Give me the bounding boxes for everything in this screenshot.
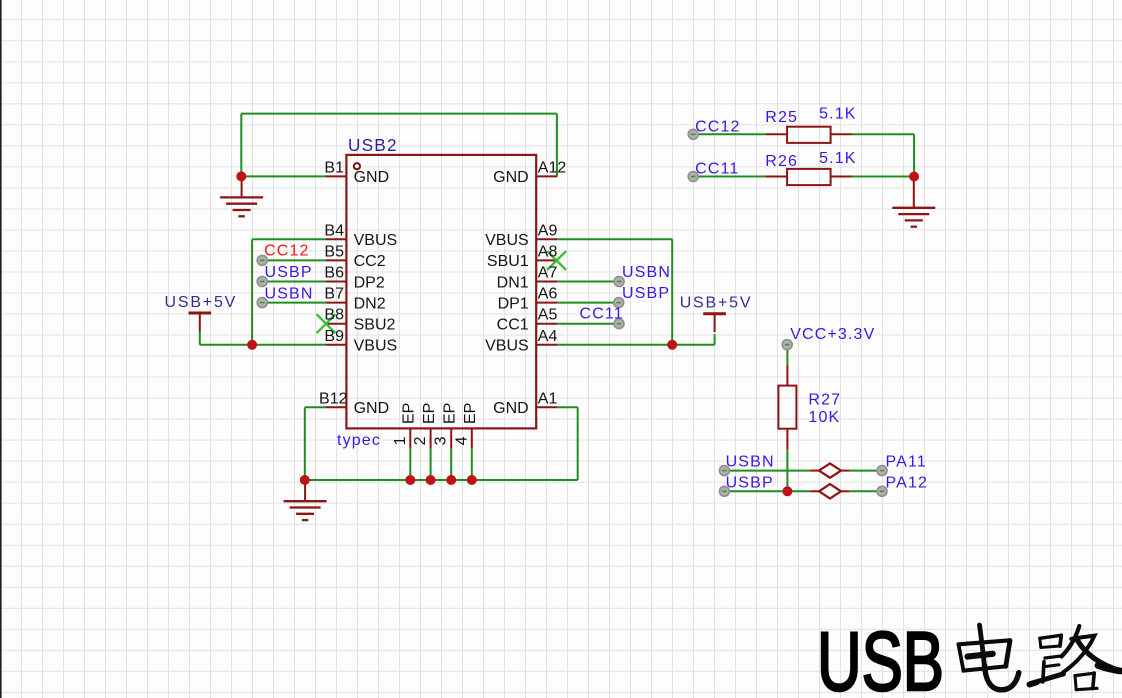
svg-text:10K: 10K (808, 409, 840, 426)
svg-text:PA11: PA11 (886, 453, 927, 470)
svg-text:A8: A8 (538, 243, 558, 260)
svg-text:USB+5V: USB+5V (165, 294, 238, 311)
svg-text:A1: A1 (538, 390, 558, 407)
svg-text:GND: GND (354, 169, 390, 186)
svg-text:SBU1: SBU1 (487, 253, 529, 270)
svg-text:VBUS: VBUS (354, 232, 398, 249)
svg-text:USBN: USBN (726, 454, 775, 471)
svg-text:USB2: USB2 (348, 135, 398, 155)
svg-text:GND: GND (493, 400, 529, 417)
svg-text:USBP: USBP (265, 264, 313, 281)
svg-text:USB+5V: USB+5V (680, 294, 753, 311)
svg-text:EP: EP (401, 403, 418, 424)
svg-text:CC11: CC11 (695, 160, 739, 177)
svg-text:VBUS: VBUS (354, 338, 398, 355)
svg-text:A12: A12 (538, 159, 567, 176)
svg-text:A9: A9 (538, 222, 558, 239)
svg-text:4: 4 (453, 436, 470, 445)
svg-text:DN1: DN1 (497, 274, 529, 291)
svg-text:USBN: USBN (265, 286, 314, 303)
svg-text:USBN: USBN (622, 264, 671, 281)
svg-text:2: 2 (412, 436, 429, 445)
svg-text:5.1K: 5.1K (819, 106, 857, 123)
svg-text:CC11: CC11 (580, 306, 624, 323)
svg-text:CC2: CC2 (354, 253, 386, 270)
svg-text:A6: A6 (538, 286, 558, 303)
svg-text:CC12: CC12 (264, 243, 310, 260)
svg-text:typec: typec (337, 432, 381, 449)
svg-text:1: 1 (392, 436, 409, 445)
svg-text:CC1: CC1 (497, 317, 529, 334)
svg-text:A7: A7 (538, 265, 558, 282)
svg-text:EP: EP (462, 403, 479, 424)
svg-text:CC12: CC12 (695, 118, 741, 135)
svg-text:B8: B8 (324, 307, 344, 324)
svg-text:DN2: DN2 (354, 295, 386, 312)
svg-text:PA12: PA12 (886, 474, 929, 491)
svg-text:SBU2: SBU2 (354, 317, 396, 334)
svg-text:GND: GND (493, 169, 529, 186)
svg-text:EP: EP (421, 403, 438, 424)
svg-text:R25: R25 (765, 109, 798, 126)
svg-text:EP: EP (441, 403, 458, 424)
svg-text:B9: B9 (324, 328, 344, 345)
svg-text:GND: GND (354, 400, 390, 417)
svg-text:DP1: DP1 (498, 295, 529, 312)
svg-text:DP2: DP2 (354, 274, 385, 291)
svg-text:VCC+3.3V: VCC+3.3V (790, 326, 875, 343)
svg-text:VBUS: VBUS (485, 232, 529, 249)
svg-text:R27: R27 (808, 391, 841, 408)
svg-text:5.1K: 5.1K (819, 150, 857, 167)
svg-text:VBUS: VBUS (485, 338, 529, 355)
svg-text:B6: B6 (324, 265, 344, 282)
svg-text:USBP: USBP (726, 474, 774, 491)
svg-text:USBP: USBP (622, 285, 670, 302)
svg-text:B4: B4 (324, 222, 344, 239)
svg-text:B7: B7 (324, 286, 344, 303)
svg-text:R26: R26 (765, 153, 798, 170)
svg-text:USB: USB (817, 614, 944, 698)
svg-text:B5: B5 (324, 243, 344, 260)
svg-text:3: 3 (433, 436, 450, 445)
svg-text:A5: A5 (538, 307, 558, 324)
svg-text:A4: A4 (538, 328, 558, 345)
svg-text:B1: B1 (324, 159, 344, 176)
svg-text:B12: B12 (319, 390, 348, 407)
